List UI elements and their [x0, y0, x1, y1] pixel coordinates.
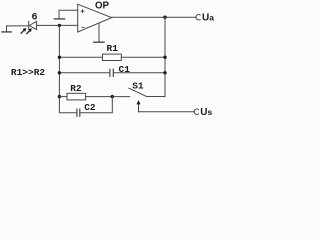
wire Us to switch arrow — [139, 111, 195, 113]
terminal Us — [194, 109, 198, 114]
node C1 left — [58, 71, 61, 74]
svg-text:Ua: Ua — [202, 13, 214, 24]
wire non-inverting input — [59, 10, 78, 18]
node R1 left — [58, 56, 61, 59]
node C1 right — [163, 71, 166, 74]
wire R2 row right to switch — [86, 96, 130, 98]
wire photodiode to inverting-input node — [37, 24, 78, 26]
svg-text:C1: C1 — [119, 64, 131, 75]
svg-text:6: 6 — [32, 12, 38, 23]
node R2/C2 right junction — [111, 95, 114, 98]
svg-text:R1>>R2: R1>>R2 — [11, 67, 46, 78]
wire C1 row right — [113, 72, 165, 74]
svg-text:+: + — [80, 8, 85, 16]
wire output node down right rail — [164, 17, 166, 96]
node R1 right — [163, 56, 166, 59]
wire R2 row left — [59, 96, 67, 98]
capacitor C1 — [109, 69, 111, 76]
terminal Ua — [196, 14, 200, 19]
wire R1 row right — [121, 56, 165, 58]
switch S1 blade — [129, 88, 147, 96]
svg-text:S1: S1 — [132, 80, 144, 91]
wire R1 row left — [59, 56, 102, 58]
light arrow 2 — [27, 28, 32, 33]
svg-text:–: – — [81, 24, 86, 32]
op-amp ground pin — [98, 23, 100, 42]
wire C2 to right junction — [80, 97, 113, 113]
resistor R2 — [67, 93, 86, 100]
svg-text:R2: R2 — [70, 83, 82, 94]
svg-text:Us: Us — [200, 107, 212, 118]
wire switch to right rail — [147, 96, 166, 98]
light arrow 1 — [21, 28, 26, 33]
svg-text:C2: C2 — [84, 102, 96, 113]
ground (left, photodiode cathode) — [6, 26, 8, 32]
wire op-amp output to Ua — [112, 16, 197, 18]
svg-text:OP: OP — [95, 1, 110, 12]
op-amp OP triangle — [78, 4, 112, 32]
node output junction — [163, 16, 166, 19]
resistor R1 — [103, 54, 122, 60]
ground (op-amp + input) — [54, 18, 64, 20]
capacitor C2 — [76, 109, 78, 116]
photodiode 6 — [28, 21, 30, 29]
node R2 left — [58, 95, 61, 98]
wire feedback left rail — [59, 25, 77, 112]
switch control arrow — [138, 103, 140, 112]
wire C1 row left — [59, 72, 110, 74]
node inverting input (junction dot) — [58, 24, 61, 27]
wire ground to photodiode — [7, 25, 29, 27]
svg-text:R1: R1 — [107, 43, 119, 54]
